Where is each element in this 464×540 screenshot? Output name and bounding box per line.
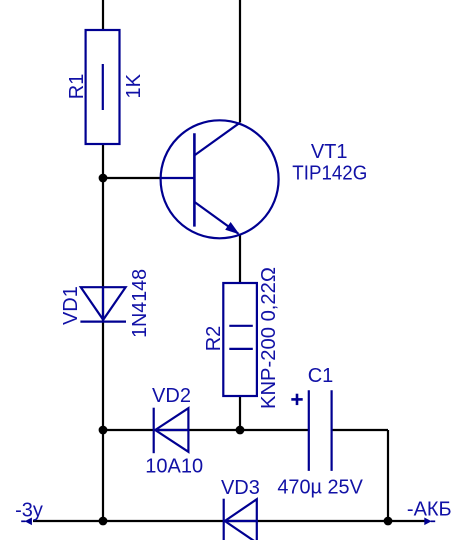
terminal arrow -3у (left): [21, 518, 32, 526]
svg-text:-3у: -3у: [15, 499, 43, 521]
polarity plus sign C1: [291, 394, 302, 405]
wire: R2 bottom to mid rail: [239, 395, 241, 430]
svg-text:1K: 1K: [123, 73, 145, 98]
wire: base wire from left rail to VT1: [103, 177, 161, 179]
resistor R2: [223, 283, 257, 396]
wire: top feed to R1: [102, 0, 104, 30]
svg-text:470µ 25V: 470µ 25V: [277, 477, 363, 499]
svg-text:R1: R1: [66, 74, 88, 100]
svg-text:VT1: VT1: [311, 141, 348, 163]
terminal arrow -АКБ (right): [424, 518, 435, 526]
junction: R2 / mid rail: [236, 426, 245, 435]
resistor R1: [86, 30, 120, 144]
wire: mid rail left rail to C1 left plate: [103, 429, 309, 431]
wire: left vertical rail R1 bottom to bottom rail: [102, 144, 104, 522]
svg-text:TIP142G: TIP142G: [292, 162, 367, 184]
svg-text:10A10: 10A10: [145, 456, 203, 478]
wire: VT1 emitter to R2: [239, 235, 241, 284]
svg-text:KNP-200 0,22Ω: KNP-200 0,22Ω: [258, 267, 280, 409]
svg-text:C1: C1: [308, 365, 334, 387]
svg-text:R2: R2: [203, 326, 225, 352]
wire: bottom rail: [33, 520, 425, 522]
junction: right rail / bottom rail: [384, 517, 393, 526]
diode VD2: [154, 408, 189, 454]
wire: C1 right plate to right rail: [332, 429, 388, 431]
svg-text:VD3: VD3: [221, 477, 260, 499]
wire: top feed to VT1 collector: [239, 0, 241, 123]
wire: right vertical rail: [387, 430, 389, 521]
transistor VT1: [161, 120, 279, 238]
junction: left rail / bottom rail: [99, 517, 108, 526]
capacitor C1: [309, 390, 332, 471]
svg-text:VD2: VD2: [152, 385, 191, 407]
diode VD3: [224, 499, 257, 540]
svg-text:1N4148: 1N4148: [129, 269, 151, 338]
svg-text:VD1: VD1: [60, 286, 82, 325]
svg-text:-АКБ: -АКБ: [407, 499, 452, 521]
junction: base node: [99, 174, 108, 183]
junction: left rail / mid rail: [99, 426, 108, 435]
diode VD1: [80, 287, 126, 321]
